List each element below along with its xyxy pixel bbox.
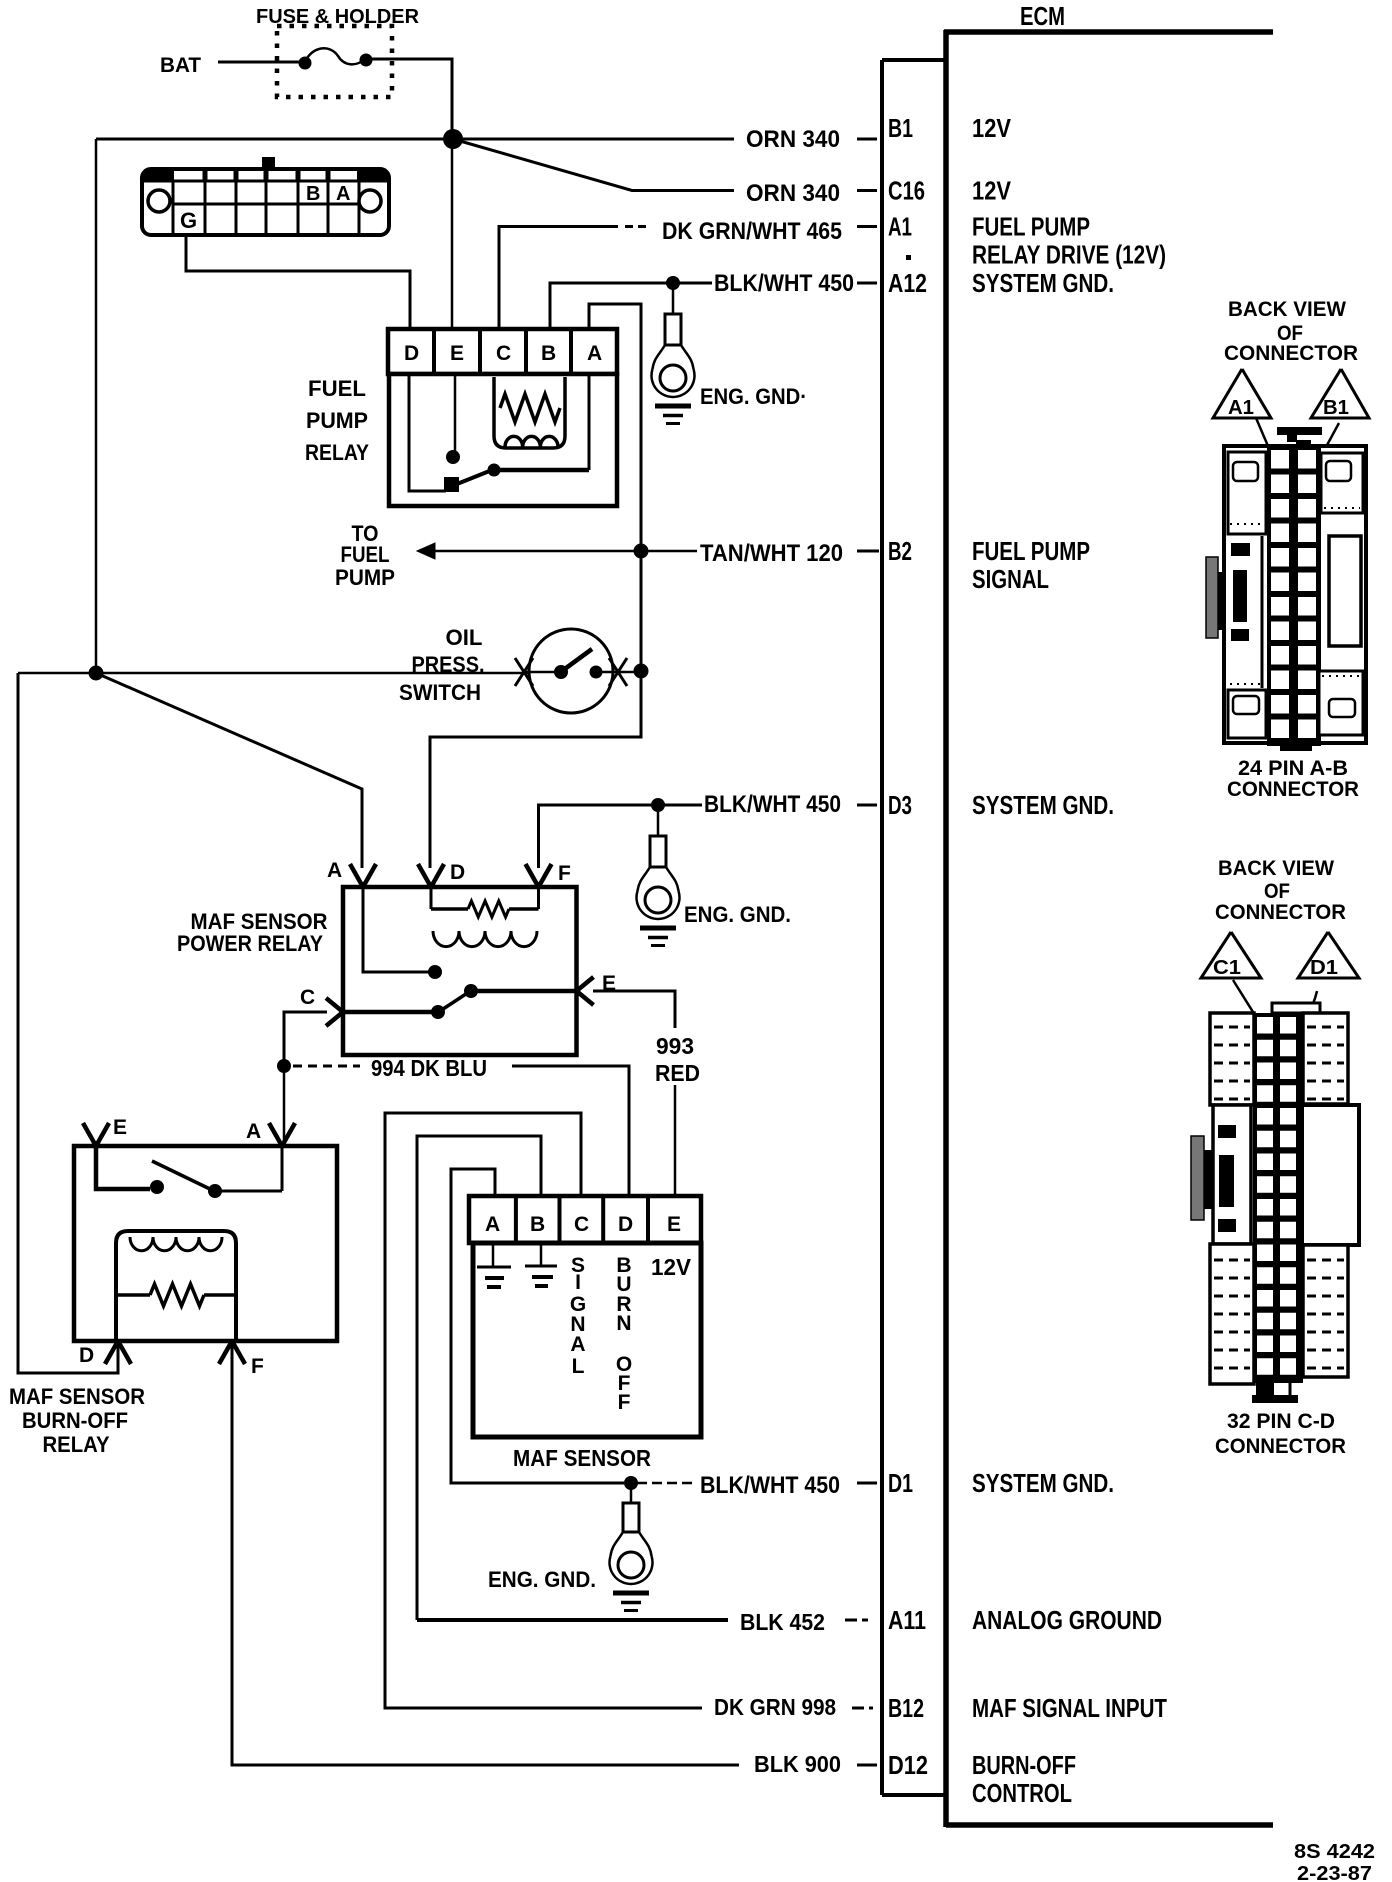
svg-text:A: A: [336, 183, 350, 205]
MAF relay coil: [433, 931, 537, 947]
svg-text:B: B: [306, 183, 320, 205]
MAF relay switch: [464, 984, 478, 998]
24 pin connector foot: [1280, 743, 1312, 751]
wire left rail drop: [95, 139, 98, 674]
MAF relay pin A internal wire: [363, 887, 429, 972]
svg-text:2-23-87: 2-23-87: [1297, 1863, 1372, 1882]
leader C1: [1233, 980, 1258, 1020]
svg-text:D12: D12: [888, 1750, 928, 1780]
node oil switch output: [634, 664, 649, 679]
svg-text:B1: B1: [1323, 397, 1349, 419]
ground lug G2: [657, 805, 660, 838]
svg-text:ANALOG GROUND: ANALOG GROUND: [972, 1605, 1162, 1635]
fuse F1: [305, 48, 365, 64]
fuel pump relay pin E internal wire: [454, 374, 457, 451]
svg-text:MAF SENSOR: MAF SENSOR: [513, 1445, 651, 1471]
svg-text:PUMP: PUMP: [335, 565, 395, 590]
svg-text:A: A: [327, 859, 342, 882]
svg-text:D: D: [618, 1213, 633, 1236]
24 pin left inner wall: [1261, 536, 1264, 688]
wire DK GRN 998 MAF sensor pin C to ECM B12: [385, 1113, 702, 1708]
svg-text:BURN-OFF: BURN-OFF: [972, 1750, 1076, 1780]
svg-text:CONTROL: CONTROL: [972, 1778, 1072, 1808]
svg-text:POWER RELAY: POWER RELAY: [177, 931, 323, 956]
svg-text:RED: RED: [655, 1060, 700, 1086]
svg-text:ORN 340: ORN 340: [746, 126, 840, 153]
svg-text:OIL: OIL: [446, 625, 483, 650]
svg-text:CONNECTOR: CONNECTOR: [1215, 901, 1346, 924]
svg-text:993: 993: [656, 1033, 694, 1059]
MAF sensor pin A ground: [492, 1243, 495, 1267]
burn-off relay coil box: [116, 1231, 236, 1341]
svg-text:BURN-OFF: BURN-OFF: [22, 1408, 128, 1433]
svg-text:A: A: [587, 342, 602, 365]
32 pin connector key: [1272, 1003, 1320, 1013]
MAF relay pin C: [326, 998, 343, 1012]
leader B1: [1320, 423, 1339, 458]
node D1 ground junction: [624, 1476, 638, 1490]
MAF relay coil resistor: [430, 887, 433, 909]
callout triangle C1: [1201, 932, 1261, 978]
svg-text:ENG. GND.: ENG. GND.: [684, 902, 791, 927]
svg-text:D3: D3: [888, 790, 912, 820]
24 pin connector key: [1277, 427, 1322, 435]
wire 994 node to burn-off relay pin A: [283, 1066, 286, 1146]
fuel pump relay body: [389, 374, 617, 506]
wire relay pin A to fuel pump signal: [589, 304, 641, 671]
ECM pin A1 row dot: [906, 255, 911, 260]
svg-text:G: G: [180, 208, 197, 233]
svg-text:F: F: [618, 1391, 631, 1414]
svg-text:BLK 900: BLK 900: [754, 1751, 841, 1777]
svg-text:994 DK BLU: 994 DK BLU: [371, 1055, 487, 1081]
svg-text:RELAY DRIVE (12V): RELAY DRIVE (12V): [972, 240, 1166, 270]
svg-text:FUEL PUMP: FUEL PUMP: [972, 212, 1090, 242]
svg-text:A: A: [485, 1213, 500, 1236]
svg-text:SYSTEM GND.: SYSTEM GND.: [972, 1468, 1114, 1498]
svg-text:FUEL PUMP: FUEL PUMP: [972, 536, 1090, 566]
MAF relay pin F: [526, 864, 539, 887]
svg-text:ENG. GND·: ENG. GND·: [700, 384, 807, 409]
32 pin right cavity bottom: [1303, 1245, 1348, 1377]
wire burn-off relay pin F to BLK 900 ECM D12: [232, 1341, 739, 1765]
svg-text:BLK/WHT 450: BLK/WHT 450: [700, 1472, 840, 1499]
MAF sensor power relay body: [343, 887, 577, 1055]
svg-text:C: C: [574, 1213, 589, 1236]
wire BLK/WHT 450 MAF relay pin F to ECM D3: [539, 805, 703, 868]
fuel pump relay switch: [452, 470, 492, 486]
svg-text:B2: B2: [888, 536, 912, 566]
24 pin right cavity bottom: [1319, 671, 1363, 735]
svg-text:A: A: [570, 1333, 585, 1356]
MAF sensor body: [473, 1243, 701, 1437]
callout triangle D1: [1298, 932, 1359, 978]
svg-text:E: E: [113, 1116, 127, 1139]
svg-text:L: L: [572, 1355, 585, 1378]
wire fuse to node A1 junction: [369, 59, 452, 132]
svg-text:ECM: ECM: [1020, 1, 1065, 31]
MAF relay pin D: [418, 864, 431, 887]
wire BLK/WHT 450 relay pin B to ECM A12: [550, 283, 712, 331]
svg-text:A1: A1: [1228, 397, 1254, 419]
leader D1: [1300, 991, 1317, 1024]
svg-text:MAF SENSOR: MAF SENSOR: [9, 1384, 145, 1409]
burn-off relay switch: [96, 1146, 150, 1189]
callout triangle A1: [1213, 369, 1271, 418]
svg-text:C1: C1: [1213, 957, 1241, 979]
MAF relay pin A: [350, 864, 363, 887]
wire connector G to fuel pump relay pin D: [186, 233, 410, 331]
fuel pump relay coil resistor: [500, 394, 560, 422]
label 994 DK BLU: [293, 1065, 360, 1068]
node battery junction: [443, 129, 463, 149]
32 pin left cavity bottom: [1210, 1244, 1254, 1384]
callout triangle B1: [1311, 369, 1369, 418]
svg-text:CONNECTOR: CONNECTOR: [1224, 342, 1358, 365]
svg-text:B12: B12: [888, 1693, 924, 1723]
svg-text:D1: D1: [888, 1468, 913, 1498]
svg-text:F: F: [558, 862, 571, 885]
svg-text:C: C: [496, 342, 511, 365]
24 pin left terminals: [1231, 543, 1250, 556]
wire oil switch to MAF relay pin D: [430, 671, 641, 868]
svg-text:D1: D1: [1310, 957, 1338, 979]
node left rail junction: [89, 666, 104, 681]
32 pin left cavity top: [1210, 1013, 1254, 1105]
wire MAF sensor pin A to ECM D1: [451, 1169, 624, 1483]
svg-text:BAT: BAT: [160, 54, 201, 77]
burn-off relay pin A: [269, 1123, 282, 1146]
svg-text:D: D: [450, 861, 465, 884]
svg-text:12V: 12V: [972, 176, 1012, 206]
32 pin right body: [1302, 1105, 1359, 1245]
svg-text:CONNECTOR: CONNECTOR: [1227, 778, 1359, 801]
svg-text:FUEL: FUEL: [341, 542, 390, 567]
svg-text:FUEL: FUEL: [308, 376, 366, 401]
svg-text:B1: B1: [888, 113, 913, 143]
svg-text:D: D: [79, 1344, 94, 1367]
svg-text:TAN/WHT 120: TAN/WHT 120: [700, 540, 843, 567]
MAF relay pin E: [577, 977, 594, 991]
svg-text:A: A: [246, 1120, 261, 1143]
24 pin left cavity top: [1228, 452, 1266, 534]
oil pressure switch S1: [529, 629, 613, 713]
node TAN/WHT junction: [634, 544, 649, 559]
svg-text:C: C: [300, 986, 315, 1009]
arrow TO FUEL PUMP: [417, 543, 435, 559]
svg-text:D: D: [404, 342, 419, 365]
svg-text:SWITCH: SWITCH: [399, 680, 481, 705]
node A12 ground junction: [666, 276, 680, 290]
svg-text:RELAY: RELAY: [305, 440, 369, 465]
svg-text:ENG. GND.: ENG. GND.: [488, 1567, 596, 1592]
burn-off relay pin E: [83, 1123, 96, 1146]
MAF sensor pin row: [469, 1196, 701, 1243]
svg-text:A1: A1: [888, 212, 912, 242]
wire node to fuel pump relay pin E: [451, 139, 454, 331]
bulkhead connector: [142, 169, 389, 235]
wire BLK 452 MAF sensor pin B to ECM A11: [417, 1136, 541, 1620]
svg-text:SYSTEM GND.: SYSTEM GND.: [972, 268, 1114, 298]
svg-text:CONNECTOR: CONNECTOR: [1215, 1435, 1346, 1458]
svg-text:E: E: [667, 1213, 681, 1236]
svg-text:DK GRN/WHT 465: DK GRN/WHT 465: [662, 218, 842, 245]
burn-off relay coil: [130, 1237, 222, 1251]
wire far left rail to burn-off relay pin D: [18, 673, 118, 1373]
svg-text:12V: 12V: [651, 1254, 692, 1280]
svg-text:BACK VIEW: BACK VIEW: [1228, 298, 1346, 321]
svg-text:ORN 340: ORN 340: [746, 180, 840, 207]
svg-text:8S 4242: 8S 4242: [1294, 1841, 1375, 1863]
svg-text:BLK 452: BLK 452: [740, 1609, 825, 1635]
32 pin left body: [1213, 1105, 1251, 1244]
svg-text:C16: C16: [888, 176, 925, 206]
svg-text:BACK VIEW: BACK VIEW: [1218, 857, 1334, 880]
svg-text:B: B: [530, 1213, 545, 1236]
wire MAF relay pin C to 994 DK BLU node: [284, 1012, 327, 1066]
ground lug G3: [630, 1483, 633, 1504]
connector key tab: [262, 157, 275, 171]
svg-text:B: B: [541, 342, 556, 365]
wire 993 RED pin E to MAF sensor 12V: [593, 991, 675, 1028]
32 pin connector foot: [1256, 1375, 1274, 1397]
svg-text:F: F: [251, 1355, 264, 1378]
svg-text:E: E: [450, 342, 464, 365]
fuse holder dotted box: [277, 26, 392, 97]
24 pin left cavity bottom: [1228, 690, 1266, 738]
32 pin left lock tab: [1191, 1136, 1204, 1220]
24 pin connector shell: [1224, 446, 1366, 743]
svg-text:32 PIN C-D: 32 PIN C-D: [1227, 1410, 1335, 1433]
burn-off relay coil resistor: [116, 1293, 150, 1297]
node 994 DK BLU: [277, 1059, 291, 1073]
svg-text:PUMP: PUMP: [306, 408, 368, 433]
svg-text:RELAY: RELAY: [43, 1432, 110, 1457]
svg-text:12V: 12V: [972, 113, 1012, 143]
svg-text:OF: OF: [1264, 880, 1290, 903]
24 pin right body: [1329, 536, 1361, 646]
24 pin left lock tab: [1206, 557, 1218, 638]
burn-off relay pin F: [219, 1341, 232, 1364]
svg-text:BLK/WHT 450: BLK/WHT 450: [714, 270, 854, 297]
wire left rail to oil pressure switch: [18, 672, 529, 675]
svg-text:SIGNAL: SIGNAL: [972, 564, 1049, 594]
wire 12V feed ORN 340 to ECM B1: [96, 138, 734, 141]
wire ORN 340 to ECM C16: [453, 139, 734, 191]
svg-text:I: I: [575, 1271, 581, 1294]
svg-text:SYSTEM GND.: SYSTEM GND.: [972, 790, 1114, 820]
wire diagonal to MAF relay pin A: [96, 673, 362, 868]
wire TAN/WHT 120: [433, 550, 697, 553]
MAF sensor pin B ground: [540, 1243, 543, 1266]
svg-text:MAF SIGNAL INPUT: MAF SIGNAL INPUT: [972, 1693, 1167, 1723]
burn-off relay pin D: [105, 1341, 118, 1364]
svg-text:24 PIN A-B: 24 PIN A-B: [1238, 757, 1348, 780]
fuel pump relay coil box: [494, 377, 565, 448]
wire DK GRN/WHT 465 relay pin C to ECM A1: [499, 227, 618, 332]
MAF sensor burn-off relay body: [74, 1146, 337, 1341]
fuel pump relay pin D internal wire: [409, 374, 446, 491]
fuel pump relay pin row: [388, 329, 617, 374]
svg-text:N: N: [616, 1312, 631, 1335]
node D3 ground junction: [651, 798, 665, 812]
24 pin center pin field: [1267, 446, 1321, 746]
leader A1: [1256, 418, 1271, 453]
svg-text:BLK/WHT 450: BLK/WHT 450: [704, 791, 841, 818]
32 pin center pin field: [1253, 1013, 1303, 1383]
ground lug G1: [672, 283, 675, 316]
32 pin right cavity top: [1303, 1013, 1348, 1104]
svg-text:DK GRN 998: DK GRN 998: [714, 1694, 836, 1720]
wire 994 DK BLU to MAF sensor pin D: [512, 1066, 629, 1196]
24 pin right cavity top: [1321, 453, 1363, 513]
wire BAT to fuse: [218, 61, 303, 64]
fuel pump relay coil: [505, 436, 558, 447]
svg-text:A11: A11: [888, 1605, 926, 1635]
svg-text:A12: A12: [888, 268, 927, 298]
